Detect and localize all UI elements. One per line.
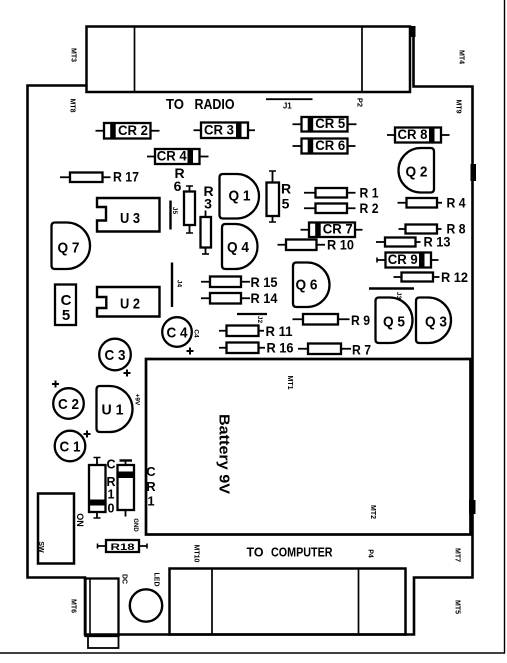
svg-text:LED: LED (153, 573, 160, 587)
svg-text:R 14: R 14 (251, 290, 278, 306)
capacitor C2 (52, 381, 84, 419)
svg-text:DC: DC (121, 574, 128, 584)
svg-text:J2: J2 (256, 316, 263, 324)
svg-text:R 15: R 15 (251, 274, 278, 290)
resistor R12 (394, 269, 469, 285)
jumper J5 wire (169, 201, 171, 230)
page border bottom edge (0, 652, 505, 654)
svg-text:6: 6 (174, 178, 182, 194)
svg-text:R18: R18 (111, 542, 135, 553)
svg-text:GND: GND (132, 518, 138, 532)
resistor R5 (267, 171, 292, 222)
diode CR5 body (293, 116, 357, 132)
connector P2 left divider (134, 27, 136, 93)
jumper J1 bar (266, 98, 313, 100)
diode CR10 (89, 458, 106, 519)
svg-text:COMPUTER: COMPUTER (271, 545, 333, 560)
svg-text:R 7: R 7 (352, 342, 371, 358)
svg-text:P2: P2 (356, 98, 365, 107)
svg-text:R 13: R 13 (424, 234, 451, 250)
connector P2 TO RADIO body (87, 27, 411, 93)
power jack inner edge (89, 579, 91, 637)
connector P4 right divider (358, 569, 360, 635)
connector P4 TO COMPUTER body (170, 569, 406, 635)
svg-text:R 1: R 1 (360, 185, 379, 201)
capacitor C4 (162, 317, 193, 354)
svg-text:C 4: C 4 (167, 325, 189, 342)
capacitor C5 (55, 285, 76, 326)
diode CR1 (118, 461, 135, 517)
transistor Q7 (52, 223, 91, 270)
svg-text:C 2: C 2 (58, 396, 79, 413)
resistor R9 (293, 312, 371, 328)
svg-text:Q 3: Q 3 (425, 314, 447, 331)
svg-text:C 1: C 1 (60, 439, 81, 456)
svg-text:U 3: U 3 (120, 210, 140, 227)
svg-text:J5: J5 (171, 207, 178, 215)
svg-text:MT8: MT8 (69, 99, 76, 113)
battery holder outline (146, 359, 471, 535)
svg-text:CR 4: CR 4 (157, 149, 187, 164)
svg-text:C: C (146, 464, 156, 479)
resistor R4 (398, 195, 466, 211)
svg-text:Q 2: Q 2 (406, 164, 428, 181)
page border right edge (504, 0, 506, 654)
svg-text:Battery 9V: Battery 9V (216, 414, 233, 494)
svg-text:P4: P4 (367, 549, 374, 558)
svg-text:Q 1: Q 1 (229, 188, 251, 205)
svg-text:U 1: U 1 (102, 402, 124, 419)
resistor R16 (219, 340, 294, 356)
svg-text:RADIO: RADIO (195, 96, 235, 113)
svg-text:Q 7: Q 7 (58, 240, 80, 257)
svg-text:R 17: R 17 (113, 169, 139, 185)
svg-text:C 3: C 3 (105, 347, 126, 364)
svg-text:+9V: +9V (134, 394, 141, 406)
resistor R1 (304, 185, 379, 201)
svg-text:Q 4: Q 4 (227, 239, 250, 256)
diode CR3 body (194, 123, 256, 139)
resistor R15 (201, 274, 278, 290)
svg-text:MT1: MT1 (286, 376, 293, 390)
power jack tab (88, 636, 119, 648)
resistor R13 (376, 234, 451, 250)
resistor R18 (98, 540, 148, 553)
svg-text:R 11: R 11 (266, 323, 293, 339)
svg-text:3: 3 (204, 196, 212, 212)
svg-text:TO: TO (247, 545, 264, 560)
capacitor C1 (55, 431, 91, 462)
resistor R7 (298, 342, 371, 358)
svg-text:MT2: MT2 (369, 505, 376, 519)
resistor R14 (201, 290, 278, 306)
svg-text:MT7: MT7 (454, 548, 461, 562)
connector P4 left divider (211, 569, 213, 635)
svg-text:MT10: MT10 (193, 545, 200, 563)
svg-text:R: R (146, 479, 156, 494)
transistor Q3 (416, 298, 451, 344)
svg-text:MT4: MT4 (458, 50, 465, 64)
IC U3 (97, 198, 160, 232)
svg-text:Q 6: Q 6 (296, 277, 318, 294)
svg-text:J1: J1 (283, 102, 292, 111)
svg-text:R 9: R 9 (351, 312, 370, 328)
svg-text:C: C (106, 458, 115, 472)
resistor R6 (174, 165, 195, 233)
svg-text:CR 9: CR 9 (388, 252, 418, 267)
svg-text:ON: ON (75, 513, 85, 527)
svg-text:U 2: U 2 (120, 296, 140, 313)
svg-text:1: 1 (147, 494, 154, 509)
svg-text:CR 6: CR 6 (315, 138, 345, 153)
svg-text:CR 5: CR 5 (315, 116, 345, 131)
resistor R8 (399, 221, 466, 237)
svg-text:R 2: R 2 (360, 200, 379, 216)
svg-text:MT3: MT3 (70, 48, 77, 62)
diode CR6 body (293, 138, 356, 154)
power jack DC body (86, 579, 119, 637)
svg-text:J4: J4 (175, 280, 182, 288)
svg-text:0: 0 (108, 502, 115, 516)
transistor Q2 (399, 148, 435, 193)
svg-text:CR 7: CR 7 (323, 222, 353, 237)
transistor Q5 (376, 298, 413, 344)
svg-text:CR 8: CR 8 (398, 127, 428, 142)
svg-text:1: 1 (108, 488, 115, 502)
svg-text:MT9: MT9 (455, 100, 462, 114)
svg-text:5: 5 (282, 196, 290, 212)
svg-text:Q 5: Q 5 (383, 314, 405, 331)
diode CR7 body (301, 222, 363, 238)
resistor R17 (60, 169, 139, 185)
connector P2 right divider (361, 27, 363, 93)
switch SW body (38, 494, 74, 564)
board edge tab lower right (469, 500, 476, 514)
svg-text:J3: J3 (395, 292, 402, 300)
svg-text:CR 2: CR 2 (118, 123, 148, 138)
diode CR9 body (377, 252, 439, 268)
LCD circle (130, 589, 162, 621)
jumper J3 wire (369, 287, 414, 290)
resistor R11 (219, 323, 293, 339)
svg-text:R 4: R 4 (447, 195, 466, 211)
diode CR2 body (96, 123, 160, 139)
capacitor C3 (99, 339, 131, 377)
svg-text:5: 5 (62, 307, 70, 324)
diode CR4 body (147, 149, 209, 165)
jumper J4 wire (171, 263, 173, 308)
diode CR8 body (387, 127, 450, 143)
resistor R3 (201, 183, 214, 254)
resistor R10 (278, 237, 355, 253)
transistor Q1 (220, 174, 260, 219)
svg-text:C4: C4 (193, 329, 200, 338)
svg-text:R 16: R 16 (267, 340, 294, 356)
svg-text:MT5: MT5 (454, 600, 461, 614)
svg-text:SW: SW (37, 541, 44, 553)
svg-text:TO: TO (166, 96, 184, 113)
connector P2 corner tab (411, 26, 416, 37)
jumper J2 wire (237, 313, 267, 315)
transistor U1 (97, 386, 133, 432)
svg-text:CR 3: CR 3 (204, 123, 234, 138)
svg-text:MT6: MT6 (70, 599, 77, 613)
transistor Q6 (293, 263, 330, 308)
resistor R2 (304, 200, 379, 216)
svg-text:R 10: R 10 (327, 237, 354, 253)
svg-text:R 12: R 12 (441, 269, 468, 285)
IC U2 (97, 287, 160, 317)
board edge tab upper right (471, 164, 477, 181)
svg-text:R: R (281, 181, 291, 197)
transistor Q4 (222, 224, 258, 269)
